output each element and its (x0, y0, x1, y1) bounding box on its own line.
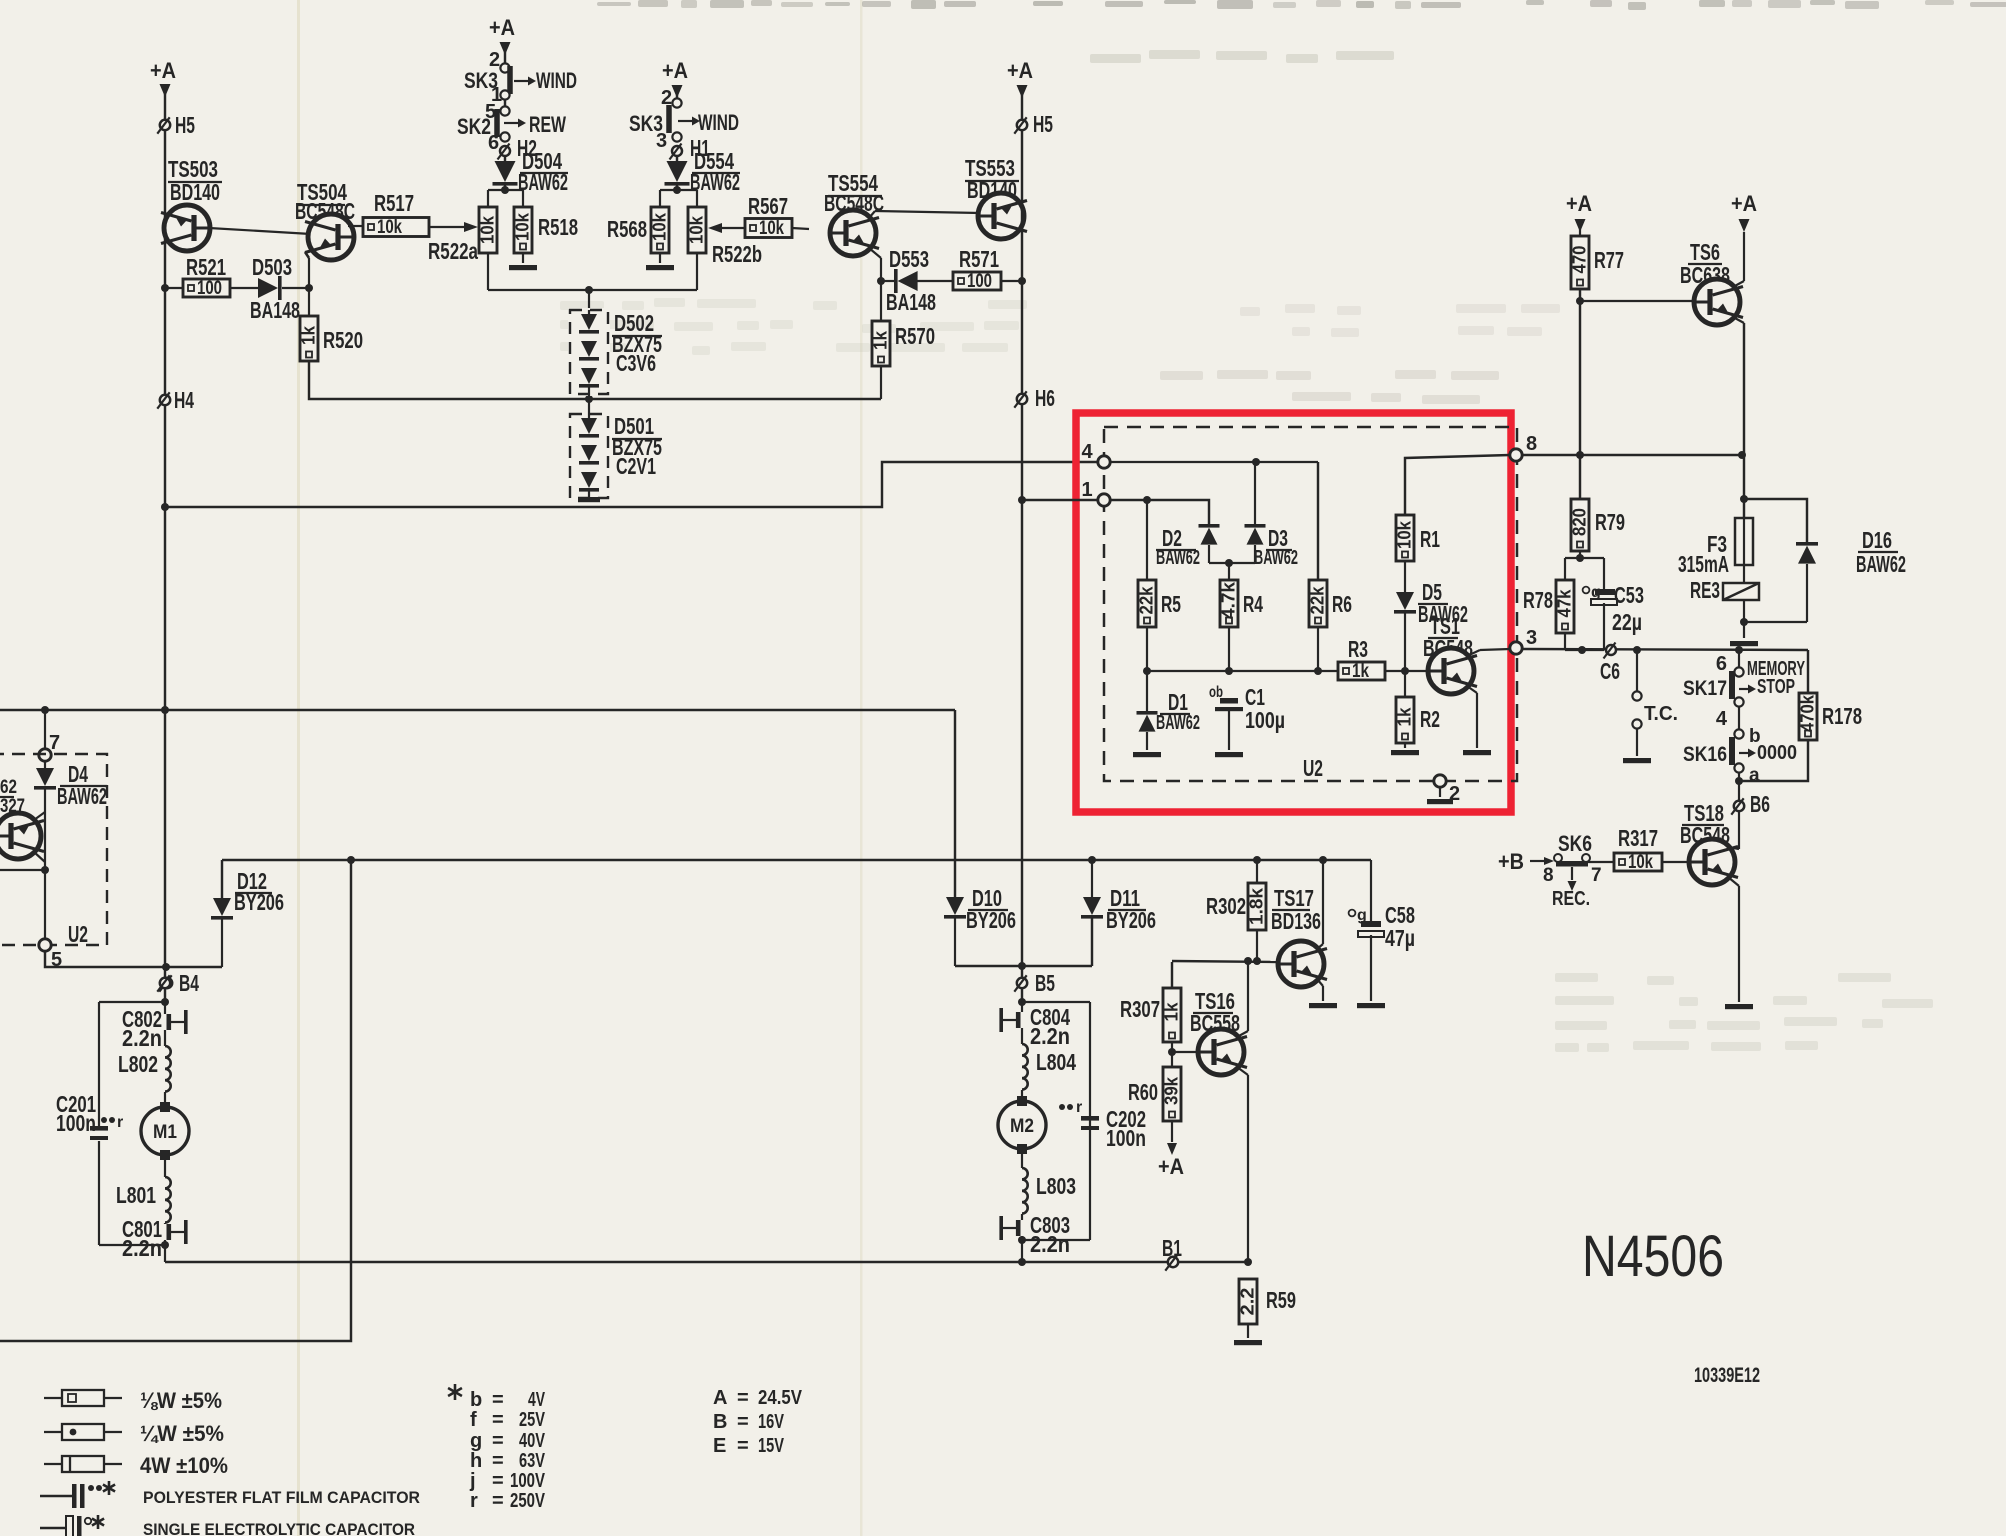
svg-text:4.7k: 4.7k (1219, 581, 1239, 619)
svg-text:R517: R517 (374, 190, 414, 216)
svg-text:10k: 10k (1395, 520, 1415, 549)
svg-text:RE3: RE3 (1690, 577, 1720, 603)
svg-text:1: 1 (1081, 479, 1092, 501)
svg-text:1k: 1k (871, 330, 891, 350)
svg-text:=: = (737, 1411, 749, 1433)
svg-text:BY206: BY206 (1106, 907, 1156, 933)
svg-text:¼W ±5%: ¼W ±5% (140, 1421, 224, 1446)
svg-text:4W ±10%: 4W ±10% (140, 1453, 228, 1478)
svg-text:=: = (492, 1450, 504, 1472)
svg-text:+A: +A (489, 15, 515, 40)
svg-text:D16: D16 (1862, 527, 1892, 553)
svg-text:R518: R518 (538, 214, 578, 240)
svg-text:SK2: SK2 (457, 114, 491, 139)
svg-text:10k: 10k (687, 215, 707, 244)
svg-text:REC.: REC. (1552, 888, 1590, 910)
svg-text:100n: 100n (1106, 1125, 1146, 1151)
svg-text:B4: B4 (179, 970, 199, 996)
svg-text:4: 4 (1716, 708, 1728, 730)
svg-text:R6: R6 (1332, 591, 1352, 617)
svg-text:T.C.: T.C. (1644, 703, 1678, 725)
svg-text:R567: R567 (748, 193, 788, 219)
svg-text:BD136: BD136 (1271, 908, 1321, 934)
svg-text:470: 470 (1570, 246, 1590, 274)
svg-text:10k: 10k (478, 215, 498, 244)
svg-text:+A: +A (1566, 191, 1592, 216)
svg-text:R79: R79 (1595, 509, 1625, 535)
svg-text:SK6: SK6 (1558, 831, 1592, 856)
svg-text:f: f (470, 1409, 477, 1431)
svg-text:R60: R60 (1128, 1079, 1158, 1105)
svg-text:22k: 22k (1137, 586, 1157, 615)
svg-text:B: B (713, 1411, 727, 1433)
svg-text:24.5V: 24.5V (758, 1387, 803, 1409)
svg-text:U2: U2 (1303, 755, 1323, 781)
svg-text:M2: M2 (1010, 1116, 1034, 1137)
svg-text:R4: R4 (1243, 591, 1263, 617)
svg-text:100n: 100n (56, 1110, 96, 1136)
svg-text:40V: 40V (519, 1430, 545, 1452)
svg-text:R178: R178 (1822, 703, 1862, 729)
svg-text:6: 6 (1716, 653, 1727, 675)
svg-text:r: r (470, 1490, 478, 1512)
svg-text:R1: R1 (1420, 526, 1440, 552)
svg-text:h: h (470, 1450, 482, 1472)
svg-text:j: j (469, 1470, 476, 1492)
svg-text:0000: 0000 (1757, 742, 1797, 764)
svg-text:SINGLE ELECTROLYTIC CAPACITO: SINGLE ELECTROLYTIC CAPACITOR (143, 1520, 415, 1536)
svg-text:8: 8 (1526, 433, 1537, 455)
svg-text:1.8k: 1.8k (1247, 887, 1267, 925)
svg-text:BA148: BA148 (250, 297, 300, 323)
svg-text:BAW62: BAW62 (518, 169, 568, 195)
svg-text:D503: D503 (252, 254, 292, 280)
svg-text:4: 4 (1081, 441, 1093, 463)
svg-text:REW: REW (529, 112, 566, 137)
svg-text:BAW62: BAW62 (1156, 712, 1200, 734)
svg-text:B5: B5 (1035, 970, 1055, 996)
svg-text:7: 7 (1591, 865, 1602, 886)
svg-text:R302: R302 (1206, 893, 1246, 919)
svg-text:15V: 15V (758, 1435, 784, 1457)
svg-text:r: r (117, 1114, 123, 1131)
svg-text:6: 6 (488, 132, 499, 154)
svg-text:R570: R570 (895, 323, 935, 349)
svg-text:10k: 10k (377, 217, 402, 238)
svg-text:=: = (737, 1387, 749, 1409)
svg-text:C2V1: C2V1 (616, 453, 656, 479)
svg-text:R77: R77 (1594, 247, 1624, 273)
svg-text:47k: 47k (1555, 589, 1575, 618)
svg-text:N4506: N4506 (1582, 1224, 1724, 1289)
svg-text:10k: 10k (650, 212, 670, 241)
svg-text:470k: 470k (1798, 694, 1818, 732)
svg-text:R3: R3 (1348, 636, 1368, 662)
svg-text:+A: +A (1007, 58, 1033, 83)
svg-text:+A: +A (1158, 1154, 1184, 1179)
svg-text:SK16: SK16 (1683, 743, 1727, 766)
svg-text:BAW62: BAW62 (1856, 551, 1906, 577)
svg-text:=: = (492, 1430, 504, 1452)
svg-text:BY206: BY206 (966, 907, 1016, 933)
svg-text:L804: L804 (1036, 1049, 1076, 1075)
svg-text:R317: R317 (1618, 825, 1658, 851)
svg-text:R522b: R522b (712, 241, 762, 267)
svg-text:315mA: 315mA (1678, 551, 1729, 577)
svg-text:+A: +A (150, 58, 176, 83)
svg-text:U2: U2 (68, 921, 88, 947)
svg-text:R78: R78 (1523, 587, 1553, 613)
svg-text:2.2: 2.2 (1238, 1288, 1258, 1316)
svg-text:62: 62 (0, 777, 17, 798)
svg-text:⅛W ±5%: ⅛W ±5% (140, 1388, 222, 1413)
svg-text:BD140: BD140 (170, 179, 220, 205)
svg-text:g: g (470, 1430, 482, 1452)
svg-text:47µ: 47µ (1385, 925, 1415, 951)
svg-text:+A: +A (1731, 191, 1757, 216)
svg-text:1k: 1k (1162, 1002, 1182, 1022)
svg-text:SK17: SK17 (1683, 677, 1727, 700)
svg-text:39k: 39k (1162, 1076, 1182, 1105)
svg-text:1k: 1k (1352, 661, 1369, 682)
svg-text:=: = (492, 1389, 504, 1411)
svg-text:820: 820 (1570, 508, 1590, 536)
svg-text:100: 100 (197, 278, 222, 299)
svg-text:22µ: 22µ (1612, 609, 1642, 635)
svg-text:=: = (492, 1409, 504, 1431)
svg-text:H4: H4 (174, 387, 194, 413)
svg-text:POLYESTER FLAT FILM CAPACIT: POLYESTER FLAT FILM CAPACITOR (143, 1488, 420, 1507)
svg-text:R307: R307 (1120, 996, 1160, 1022)
svg-text:H6: H6 (1035, 385, 1055, 411)
svg-text:R521: R521 (186, 254, 226, 280)
svg-text:16V: 16V (758, 1411, 784, 1433)
svg-text:R59: R59 (1266, 1287, 1296, 1313)
svg-text:WIND: WIND (536, 68, 577, 93)
svg-text:R568: R568 (607, 216, 647, 242)
svg-text:R571: R571 (959, 246, 999, 272)
svg-text:+A: +A (662, 58, 688, 83)
svg-text:R520: R520 (323, 327, 363, 353)
svg-text:BAW62: BAW62 (1156, 547, 1200, 569)
svg-text:2.2n: 2.2n (1030, 1231, 1070, 1257)
svg-text:100µ: 100µ (1245, 707, 1285, 733)
svg-text:BAW62: BAW62 (57, 783, 107, 809)
svg-text:3: 3 (656, 130, 667, 152)
svg-text:H5: H5 (1033, 111, 1053, 137)
svg-text:2.2n: 2.2n (122, 1235, 162, 1261)
svg-text:BY206: BY206 (234, 889, 284, 915)
svg-text:63V: 63V (519, 1450, 545, 1472)
svg-text:3: 3 (1526, 627, 1537, 649)
svg-text:1k: 1k (299, 325, 319, 345)
svg-text:M1: M1 (153, 1122, 177, 1143)
svg-text:B6: B6 (1750, 791, 1770, 817)
svg-text:22k: 22k (1308, 586, 1328, 615)
svg-text:D553: D553 (889, 246, 929, 272)
svg-text:100: 100 (967, 271, 992, 292)
svg-text:A: A (713, 1387, 727, 1409)
svg-text:C6: C6 (1600, 658, 1620, 684)
svg-text:b: b (470, 1389, 482, 1411)
svg-text:10k: 10k (759, 218, 784, 239)
svg-text:100V: 100V (510, 1470, 545, 1492)
svg-text:25V: 25V (519, 1409, 545, 1431)
svg-text:R522a: R522a (428, 238, 478, 264)
svg-text:2.2n: 2.2n (1030, 1023, 1070, 1049)
svg-text:WIND: WIND (698, 110, 739, 135)
svg-text:L801: L801 (116, 1182, 156, 1208)
svg-text:10k: 10k (513, 212, 533, 241)
svg-text:L802: L802 (118, 1051, 158, 1077)
svg-text:BA148: BA148 (886, 289, 936, 315)
svg-text:STOP: STOP (1757, 676, 1795, 698)
svg-text:4V: 4V (528, 1389, 545, 1411)
svg-text:r: r (1076, 1099, 1082, 1116)
svg-text:250V: 250V (510, 1490, 545, 1512)
svg-text:2.2n: 2.2n (122, 1025, 162, 1051)
svg-text:10339E12: 10339E12 (1694, 1364, 1760, 1387)
svg-text:C53: C53 (1614, 582, 1644, 608)
svg-text:R5: R5 (1161, 591, 1181, 617)
svg-text:E: E (713, 1435, 726, 1457)
svg-text:8: 8 (1543, 865, 1554, 886)
svg-text:BAW62: BAW62 (1254, 547, 1298, 569)
svg-text:L803: L803 (1036, 1173, 1076, 1199)
svg-text:=: = (492, 1470, 504, 1492)
svg-text:+B: +B (1498, 849, 1524, 874)
svg-text:1k: 1k (1395, 707, 1415, 727)
svg-text:a: a (1749, 765, 1760, 786)
svg-text:H5: H5 (175, 112, 195, 138)
svg-text:=: = (737, 1435, 749, 1457)
svg-text:C3V6: C3V6 (616, 350, 656, 376)
svg-text:R2: R2 (1420, 706, 1440, 732)
svg-text:10k: 10k (1628, 852, 1653, 873)
svg-text:=: = (492, 1490, 504, 1512)
